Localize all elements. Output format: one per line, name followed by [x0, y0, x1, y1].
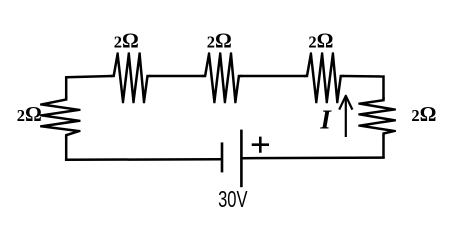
svg-text:2Ω: 2Ω	[207, 28, 232, 52]
svg-text:2Ω: 2Ω	[411, 102, 436, 126]
svg-text:2Ω: 2Ω	[114, 28, 139, 52]
svg-text:I: I	[319, 105, 332, 135]
svg-text:30V: 30V	[218, 186, 248, 212]
svg-text:2Ω: 2Ω	[308, 28, 333, 52]
svg-text:2Ω: 2Ω	[17, 102, 42, 126]
